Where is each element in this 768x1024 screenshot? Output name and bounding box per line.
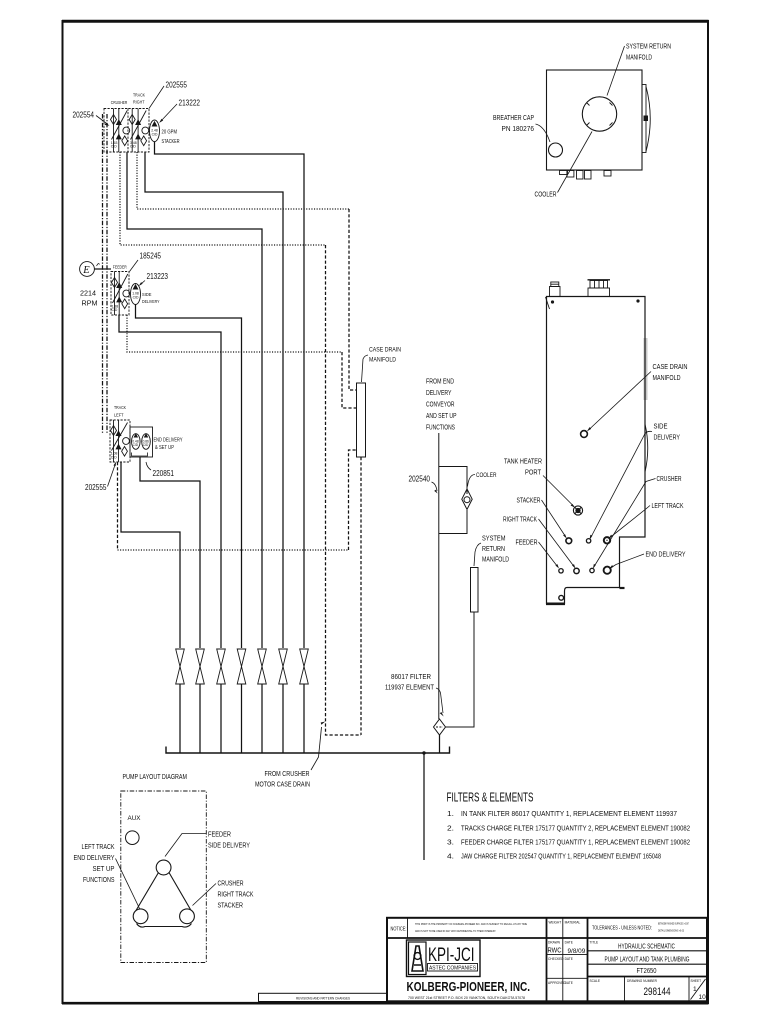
svg-text:213222: 213222 xyxy=(179,99,201,108)
wire track-left to valve1 xyxy=(121,462,180,648)
svg-text:CRUSHER: CRUSHER xyxy=(111,100,128,105)
case drain dotted track-left run xyxy=(118,549,349,551)
pump stacker gear pump ellipse xyxy=(150,120,160,142)
pump side delivery ellipse xyxy=(131,284,141,305)
svg-text:& SET UP: & SET UP xyxy=(155,445,175,451)
svg-text:20 GPM: 20 GPM xyxy=(162,130,178,136)
valves: seven bowtie flow controls xyxy=(176,649,309,684)
case drain dashed long drop to crusher motor drain xyxy=(326,245,362,735)
svg-text:DRAWN: DRAWN xyxy=(548,941,561,945)
port stacker xyxy=(566,538,572,544)
svg-text:SHEET: SHEET xyxy=(691,979,702,983)
svg-text:MANIFOLD: MANIFOLD xyxy=(482,555,509,564)
grey scan band xyxy=(644,338,648,400)
label LEFT TRACK END DELIVERY SET UP FUNCTIONS xyxy=(74,842,115,884)
svg-text:LEFT: LEFT xyxy=(114,413,124,418)
port case drain xyxy=(581,431,588,438)
svg-text:220851: 220851 xyxy=(153,469,175,478)
wire valve2 drop xyxy=(199,684,201,753)
wire from end delivery down xyxy=(438,433,440,719)
case drain dashed drop to manifold top port xyxy=(349,209,357,390)
bottom numbers row xyxy=(624,977,626,1002)
svg-text:2.: 2. xyxy=(447,826,454,833)
svg-text:TOLERANCES - UNLESS NOTED:: TOLERANCES - UNLESS NOTED: xyxy=(592,926,652,932)
system return manifold circle xyxy=(582,97,616,131)
svg-text:FUNCTIONS: FUNCTIONS xyxy=(426,423,455,432)
svg-text:DATE: DATE xyxy=(565,957,573,961)
svg-text:STACKER: STACKER xyxy=(162,139,180,145)
svg-text:CID: CID xyxy=(112,308,118,312)
logo A mark xyxy=(412,946,423,971)
wire feeder to valve3 xyxy=(119,315,221,648)
cooler bypass loop xyxy=(439,467,467,495)
svg-text:BETWEEN FINISHED SURFACES +0.0: BETWEEN FINISHED SURFACES +0.007 xyxy=(658,922,689,926)
suction dash-dot line b xyxy=(106,114,108,434)
svg-text:CID: CID xyxy=(130,145,136,149)
top flange fitting xyxy=(588,280,611,297)
svg-text:MANIFOLD: MANIFOLD xyxy=(626,53,652,62)
case drain dashed from track-left block xyxy=(117,462,119,550)
svg-text:BREATHER CAP: BREATHER CAP xyxy=(493,113,534,122)
svg-text:SYSTEM: SYSTEM xyxy=(482,534,506,543)
svg-text:COOLER: COOLER xyxy=(535,190,557,199)
svg-text:CID: CID xyxy=(133,295,139,299)
svg-text:298144: 298144 xyxy=(644,986,671,998)
wire stacker to valve7 xyxy=(155,142,305,648)
svg-text:FILTERS & ELEMENTS: FILTERS & ELEMENTS xyxy=(447,790,534,805)
svg-text:202540: 202540 xyxy=(409,475,431,484)
revision strip box xyxy=(259,993,388,1001)
suction dash-dot line a xyxy=(102,114,104,434)
pump P1a crusher half internals xyxy=(111,109,130,153)
svg-text:119937 ELEMENT: 119937 ELEMENT xyxy=(385,683,434,692)
logo cell xyxy=(407,940,531,1000)
wire valve6 drop xyxy=(282,684,284,753)
wire manifold to filter xyxy=(446,612,475,727)
svg-text:MANIFOLD: MANIFOLD xyxy=(653,373,681,382)
svg-text:213223: 213223 xyxy=(147,272,169,281)
svg-text:CID: CID xyxy=(111,455,117,459)
pulley feeder top xyxy=(156,860,171,875)
svg-text:KPI-JCI: KPI-JCI xyxy=(428,944,475,966)
svg-text:1.: 1. xyxy=(447,811,454,818)
svg-text:RPM: RPM xyxy=(82,299,98,308)
port feeder xyxy=(559,569,563,573)
svg-text:CASE DRAIN: CASE DRAIN xyxy=(369,347,401,354)
svg-text:END DELIVERY: END DELIVERY xyxy=(74,853,115,862)
pulley aux xyxy=(126,831,140,845)
svg-text:FROM CRUSHER: FROM CRUSHER xyxy=(265,769,310,778)
svg-text:DELIVERY: DELIVERY xyxy=(142,299,160,305)
svg-text:RWC: RWC xyxy=(548,946,562,955)
svg-text:LEFT TRACK: LEFT TRACK xyxy=(652,501,684,510)
tank top view outline xyxy=(547,70,643,170)
svg-text:STACKER: STACKER xyxy=(218,901,244,910)
svg-text:STACKER: STACKER xyxy=(517,496,541,505)
svg-text:4.: 4. xyxy=(447,854,454,861)
svg-text:CID: CID xyxy=(111,145,117,149)
svg-text:RIGHT: RIGHT xyxy=(133,100,145,105)
svg-text:END DELIVERY: END DELIVERY xyxy=(646,550,686,559)
port tank heater xyxy=(573,506,582,515)
svg-text:RIGHT TRACK: RIGHT TRACK xyxy=(503,515,537,524)
notice row divider xyxy=(387,937,707,939)
weight/material column dividers xyxy=(546,918,548,1002)
svg-text:10: 10 xyxy=(699,994,707,1001)
svg-text:RETURN: RETURN xyxy=(482,544,505,553)
svg-text:AUX: AUX xyxy=(128,815,142,822)
svg-text:TRACKS CHARGE FILTER 175177 QU: TRACKS CHARGE FILTER 175177 QUANTITY 2, … xyxy=(461,826,690,833)
wire filter diamond to bottom line xyxy=(439,735,441,753)
svg-text:202554: 202554 xyxy=(73,111,95,120)
svg-text:MOTOR CASE DRAIN: MOTOR CASE DRAIN xyxy=(255,780,310,789)
svg-text:DETAIL DIMENSIONS +0.03: DETAIL DIMENSIONS +0.03 xyxy=(658,929,684,933)
case drain dashed rise into manifold lower port xyxy=(349,450,357,550)
drawn/checked/approved rows xyxy=(547,954,588,978)
svg-text:DATE: DATE xyxy=(565,941,573,945)
pulley bottom left xyxy=(133,909,148,924)
pulley bottom right xyxy=(180,909,195,924)
svg-text:SIDE: SIDE xyxy=(142,292,152,298)
svg-text:TRACK: TRACK xyxy=(133,93,146,98)
svg-text:CONVEYOR: CONVEYOR xyxy=(426,400,455,409)
notice cell divider xyxy=(407,918,409,938)
svg-text:AND SET UP: AND SET UP xyxy=(426,411,457,420)
wire to tank suction (open end) xyxy=(423,753,425,860)
svg-text:DELIVERY: DELIVERY xyxy=(426,388,452,397)
svg-text:ASTEC COMPANIES: ASTEC COMPANIES xyxy=(429,966,476,972)
system return manifold rectangle xyxy=(471,568,479,613)
port crusher xyxy=(590,568,594,572)
wire side-delivery to valve4 xyxy=(136,304,242,648)
bottom drain manifold line xyxy=(166,747,450,754)
svg-text:FEEDER: FEEDER xyxy=(516,538,538,547)
svg-text:SYSTEM RETURN: SYSTEM RETURN xyxy=(626,42,671,51)
right edge arc xyxy=(645,424,648,472)
svg-text:185245: 185245 xyxy=(140,252,162,261)
wire valve4 drop xyxy=(241,684,243,753)
engine E circle xyxy=(80,262,95,277)
bolt dots xyxy=(551,300,554,303)
svg-text:REVISIONS AND PATTERN CHANGES: REVISIONS AND PATTERN CHANGES xyxy=(296,996,350,1000)
svg-text:MATERIAL: MATERIAL xyxy=(565,921,581,925)
svg-text:CID: CID xyxy=(152,132,158,136)
svg-text:TITLE: TITLE xyxy=(590,940,599,944)
svg-text:CID: CID xyxy=(133,443,139,447)
svg-text:CRUSHER: CRUSHER xyxy=(218,879,244,888)
svg-text:E: E xyxy=(82,265,90,276)
wire valve7 drop xyxy=(303,684,305,753)
svg-text:THIS PRINT IS THE PROPERTY OF: THIS PRINT IS THE PROPERTY OF KOLBERG-PI… xyxy=(415,922,527,926)
port left track xyxy=(604,537,610,543)
svg-text:9/8/09: 9/8/09 xyxy=(568,948,586,955)
port side delivery xyxy=(586,539,590,543)
svg-text:HYDRAULIC SCHEMATIC: HYDRAULIC SCHEMATIC xyxy=(618,941,675,950)
svg-text:PUMP LAYOUT AND TANK PLUMBING: PUMP LAYOUT AND TANK PLUMBING xyxy=(605,954,690,963)
svg-text:PORT: PORT xyxy=(525,468,541,477)
svg-text:FEEDER: FEEDER xyxy=(113,265,128,270)
svg-text:FROM END: FROM END xyxy=(426,377,454,386)
svg-text:SIDE: SIDE xyxy=(654,422,668,431)
svg-text:3.: 3. xyxy=(447,840,454,847)
case drain dotted from block1 port d5 xyxy=(120,152,326,245)
svg-text:DATE: DATE xyxy=(565,981,573,985)
svg-text:CRUSHER: CRUSHER xyxy=(657,474,682,483)
filter diamond F1 xyxy=(434,719,446,735)
pump block P3 track-left outline xyxy=(110,420,130,462)
svg-text:FEEDER: FEEDER xyxy=(208,830,231,839)
case drain manifold rectangle xyxy=(357,383,366,457)
port end delivery xyxy=(604,567,611,574)
svg-text:1: 1 xyxy=(693,986,697,993)
wire valve3 drop xyxy=(220,684,222,753)
case drain dashed drop into manifold mid port xyxy=(342,352,357,408)
svg-text:LEFT TRACK: LEFT TRACK xyxy=(82,842,115,851)
svg-text:KOLBERG-PIONEER, INC.: KOLBERG-PIONEER, INC. xyxy=(407,980,531,994)
wire valve5 drop xyxy=(261,684,263,753)
svg-text:END DELIVERY: END DELIVERY xyxy=(154,438,184,444)
svg-text:86017 FILTER: 86017 FILTER xyxy=(391,672,431,681)
wire engine to feeder pump xyxy=(94,268,111,270)
svg-text:PN 180276: PN 180276 xyxy=(502,124,535,133)
svg-text:700 WEST 21st STREET P.O. BOX: 700 WEST 21st STREET P.O. BOX 20 YANKTON… xyxy=(408,996,525,1000)
svg-text:2214: 2214 xyxy=(80,289,96,298)
breather cap circle xyxy=(549,143,563,157)
wire track-right to valve5 xyxy=(127,152,262,648)
svg-text:SET UP: SET UP xyxy=(93,864,115,873)
corner weld tick xyxy=(546,297,550,309)
wire crusher to valve6 xyxy=(145,152,283,648)
svg-text:202555: 202555 xyxy=(166,81,188,90)
svg-text:COOLER: COOLER xyxy=(476,472,497,479)
label SYSTEM RETURN MANIFOLD xyxy=(482,534,509,564)
wire valve1 drop xyxy=(179,684,181,753)
svg-text:DRAWING NUMBER: DRAWING NUMBER xyxy=(627,979,658,983)
pump layout dash-dot box xyxy=(121,791,207,963)
title block outer xyxy=(387,918,707,1002)
svg-text:JAW CHARGE FILTER 202547 QUANT: JAW CHARGE FILTER 202547 QUANTITY 1, REP… xyxy=(461,854,661,861)
svg-text:TRACK: TRACK xyxy=(114,405,127,410)
pump block P2 feeder outline xyxy=(111,272,129,316)
wire end-delivery to valve2 xyxy=(140,457,200,648)
svg-text:SCALE: SCALE xyxy=(590,979,600,983)
KPI-JCI logo box xyxy=(407,940,481,977)
svg-text:DELIVERY: DELIVERY xyxy=(654,433,681,442)
svg-text:CID: CID xyxy=(143,443,149,447)
svg-text:AND IS NOT TO BE USED IN ANY W: AND IS NOT TO BE USED IN ANY WAY DETRIME… xyxy=(415,929,496,933)
tank right arc xyxy=(646,87,650,152)
svg-text:IN TANK FILTER 86017 QUANTITY: IN TANK FILTER 86017 QUANTITY 1, REPLACE… xyxy=(461,811,677,818)
pump block P1 outline (crusher + track right tandem) xyxy=(104,109,149,153)
svg-text:NOTICE:: NOTICE: xyxy=(391,927,407,933)
svg-text:FT2650: FT2650 xyxy=(637,966,657,975)
top cylinder fitting xyxy=(550,282,561,297)
svg-text:CHECKED: CHECKED xyxy=(548,957,564,961)
svg-text:WEIGHT: WEIGHT xyxy=(549,921,562,925)
port foot xyxy=(559,595,564,600)
pump P1b track-right half internals xyxy=(129,109,149,153)
svg-text:SIDE DELIVERY: SIDE DELIVERY xyxy=(208,841,250,850)
svg-text:PUMP LAYOUT DIAGRAM: PUMP LAYOUT DIAGRAM xyxy=(123,772,188,781)
label CRUSHER RIGHT TRACK STACKER xyxy=(218,879,254,910)
svg-text:202555: 202555 xyxy=(85,483,107,492)
svg-text:CASE DRAIN: CASE DRAIN xyxy=(653,362,688,371)
svg-text:FEEDER CHARGE FILTER 175177 QU: FEEDER CHARGE FILTER 175177 QUANTITY 1, … xyxy=(461,840,690,847)
cooler diamond C1 xyxy=(462,489,472,509)
tank side view outline xyxy=(547,297,646,604)
svg-text:FUNCTIONS: FUNCTIONS xyxy=(83,875,115,884)
case drain dashed from manifold bottom down xyxy=(360,457,362,735)
label FROM END DELIVERY CONVEYOR AND SET UP FUNCTIONS xyxy=(426,377,457,432)
port right track xyxy=(574,568,579,573)
belt xyxy=(136,873,192,928)
svg-text:MANIFOLD: MANIFOLD xyxy=(369,357,396,364)
title rows xyxy=(588,951,708,977)
tank right flange bar xyxy=(642,85,646,153)
end delivery pump pair box xyxy=(130,427,153,457)
tank feet tabs xyxy=(560,171,568,175)
svg-text:TANK HEATER: TANK HEATER xyxy=(504,457,542,466)
svg-text:RIGHT TRACK: RIGHT TRACK xyxy=(218,890,254,899)
case drain dotted from block1 port d3 xyxy=(137,152,349,209)
junction dot xyxy=(422,751,425,754)
case drain dotted from feeder block xyxy=(127,315,342,352)
